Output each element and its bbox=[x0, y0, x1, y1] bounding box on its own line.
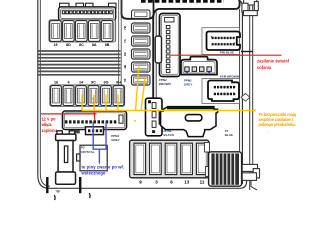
svg-text:GREY: GREY bbox=[111, 138, 120, 142]
node diamond mark bbox=[241, 93, 250, 101]
node tick mark left bbox=[46, 177, 48, 193]
svg-text:8D: 8D bbox=[66, 43, 71, 47]
node right fuse column labels bbox=[123, 26, 127, 82]
wire top dashed pin bar bbox=[141, 0, 224, 3]
svg-text:zasilanie świateł: zasilanie świateł bbox=[257, 59, 290, 64]
node label P2 CRYSTAL bbox=[81, 146, 95, 154]
node label PPN2 BROWN bbox=[159, 78, 171, 86]
wire yellow bus bbox=[82, 66, 256, 111]
node label PPN1 BLACK bbox=[164, 129, 175, 137]
wire blue shorted pins bbox=[93, 122, 106, 164]
svg-text:jednego przekaźnika: jednego przekaźnika bbox=[258, 122, 297, 127]
fuse row 2 (16 4 14 9C 9G 9H) bbox=[50, 85, 125, 106]
node nub above stripe block bbox=[205, 143, 210, 153]
svg-text:BROWN: BROWN bbox=[159, 82, 171, 86]
node bolt bottom right bbox=[242, 164, 259, 180]
svg-text:włącz.: włącz. bbox=[41, 122, 53, 127]
connector PPN2 BROWN bbox=[155, 14, 180, 77]
connector top housing bbox=[122, 0, 154, 19]
wire main box top edge bbox=[153, 0, 239, 110]
wire left enclosure wall bbox=[38, 0, 247, 188]
connector PPN1 BLACK cover bbox=[161, 107, 218, 137]
node bolt top right bbox=[242, 0, 258, 16]
svg-text:5F: 5F bbox=[123, 78, 127, 82]
node gray wedge mark bbox=[55, 190, 60, 193]
svg-text:7B: 7B bbox=[123, 26, 127, 30]
fuse maxi bottom left bbox=[56, 131, 76, 185]
wire right inner wall bbox=[238, 1, 242, 184]
svg-text:GREY: GREY bbox=[184, 82, 193, 86]
connector end-cap right of PPN2 GREY bbox=[146, 98, 165, 136]
node small tab below connector bbox=[75, 130, 80, 133]
wire right enclosure wall bbox=[250, 0, 253, 190]
wire red 12V line (left) bbox=[41, 98, 97, 121]
node yellow dot bbox=[134, 120, 136, 122]
node red label 12V bbox=[41, 117, 58, 133]
connector PPN1 GREY (trapezoid) bbox=[181, 57, 217, 75]
node small nub between fuse row and stripe block bbox=[205, 167, 209, 177]
node label P1 BLUE bbox=[225, 129, 233, 137]
svg-text:9H: 9H bbox=[116, 81, 121, 85]
svg-text:9C: 9C bbox=[91, 81, 96, 85]
svg-text:12 V po: 12 V po bbox=[42, 117, 56, 122]
resistor stripe block bottom right bbox=[209, 152, 242, 186]
connector FEM BROWN bbox=[208, 81, 239, 102]
node blue note text bbox=[81, 164, 125, 175]
svg-text:4B: 4B bbox=[123, 65, 127, 69]
node yellow note text bbox=[258, 112, 297, 134]
node compartment PIN BLUE bbox=[202, 28, 240, 55]
fuse row bottom (9 3 6 13 11) bbox=[130, 140, 209, 178]
node tick mark mid bbox=[79, 177, 81, 193]
svg-text:·: · bbox=[269, 129, 270, 134]
wire inner divider left of fuse column bbox=[119, 0, 122, 85]
svg-text:wstecznego: wstecznego bbox=[81, 171, 106, 176]
svg-text:CRYSTAL: CRYSTAL bbox=[81, 150, 95, 154]
wire shelf line right compartment bbox=[241, 51, 253, 53]
connector P2 CRYSTAL box bbox=[77, 145, 108, 171]
svg-text:13: 13 bbox=[184, 179, 190, 184]
node comma mark mid bbox=[88, 193, 91, 198]
node bottom fuse labels bbox=[139, 179, 205, 184]
svg-text:8C: 8C bbox=[79, 43, 84, 47]
connector PPN2 GREY (18-pin) bbox=[63, 111, 127, 135]
node fuse row 2 labels bbox=[54, 81, 121, 85]
node red label reversing bbox=[257, 59, 290, 71]
svg-text:BLACK: BLACK bbox=[164, 133, 175, 137]
connector 20-pin top left bbox=[59, 3, 116, 20]
wire bolt tail bbox=[251, 181, 257, 190]
connector PIN BLUE bbox=[207, 32, 241, 51]
svg-text:zapłonu: zapłonu bbox=[42, 128, 58, 133]
svg-text:16: 16 bbox=[54, 81, 58, 85]
node comma mark left bbox=[53, 195, 56, 200]
fuse row 1 (19 8D 8C 8A 8B) bbox=[49, 20, 116, 42]
svg-text:cofania: cofania bbox=[257, 65, 272, 70]
svg-text:8B: 8B bbox=[105, 43, 110, 47]
svg-text:11: 11 bbox=[200, 179, 205, 184]
svg-text:PIN BLUE: PIN BLUE bbox=[220, 51, 234, 55]
resistor stripe block (ribbon) bbox=[38, 51, 121, 75]
node label PPN2 GREY bbox=[111, 134, 120, 142]
node fuse row 1 labels bbox=[53, 43, 109, 47]
svg-text:BLUE: BLUE bbox=[225, 133, 233, 137]
svg-text:te piny zwarte po wł.: te piny zwarte po wł. bbox=[82, 164, 125, 169]
node compartment FEM BROWN bbox=[202, 79, 240, 104]
svg-text:9G: 9G bbox=[104, 81, 109, 85]
fuse column right (7B 7A 6A 4B 5F) bbox=[132, 10, 151, 85]
svg-text:8A: 8A bbox=[92, 43, 97, 47]
svg-text:19: 19 bbox=[53, 43, 57, 47]
node label PPN1 GREY bbox=[184, 79, 193, 87]
svg-text:FEM BROWN: FEM BROWN bbox=[220, 74, 239, 78]
wire red reversing light line (right) bbox=[170, 54, 282, 56]
